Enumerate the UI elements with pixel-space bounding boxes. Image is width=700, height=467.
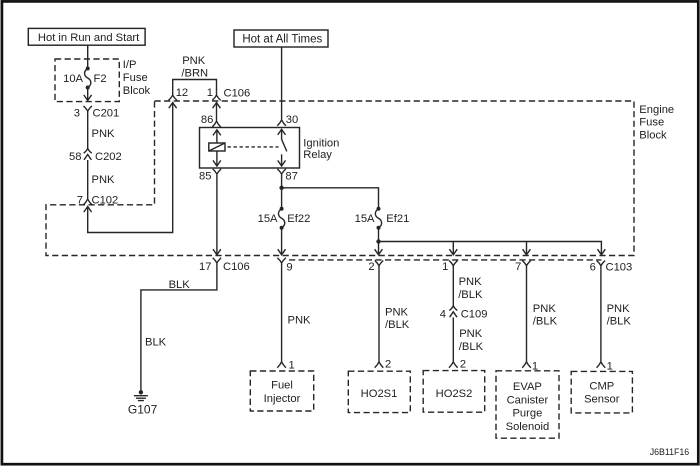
svg-text:4: 4: [440, 308, 446, 320]
svg-text:PNK: PNK: [459, 328, 483, 340]
svg-text:58: 58: [69, 151, 81, 163]
svg-text:C202: C202: [95, 151, 122, 163]
svg-text:1: 1: [607, 361, 613, 373]
svg-text:C103: C103: [606, 262, 633, 274]
svg-text:Ef21: Ef21: [386, 213, 409, 225]
svg-text:/BLK: /BLK: [607, 315, 632, 327]
svg-text:PNK: PNK: [607, 303, 631, 315]
svg-text:30: 30: [286, 114, 298, 126]
svg-text:HO2S2: HO2S2: [436, 388, 473, 400]
svg-text:87: 87: [285, 171, 297, 183]
svg-text:PNK: PNK: [92, 174, 116, 186]
svg-text:2: 2: [368, 261, 374, 273]
svg-text:Hot at All Times: Hot at All Times: [242, 34, 322, 46]
svg-text:BLK: BLK: [169, 279, 191, 291]
svg-text:Solenoid: Solenoid: [506, 421, 550, 433]
svg-text:C106: C106: [223, 261, 250, 273]
svg-text:7: 7: [515, 261, 521, 273]
svg-text:PNK: PNK: [288, 315, 312, 327]
svg-text:9: 9: [286, 262, 292, 274]
svg-text:1: 1: [532, 361, 538, 373]
svg-text:PNK: PNK: [459, 276, 483, 288]
svg-text:C106: C106: [224, 88, 251, 100]
svg-text:F2: F2: [94, 73, 107, 85]
svg-text:Fuel: Fuel: [271, 380, 293, 392]
svg-text:/BLK: /BLK: [385, 319, 410, 331]
svg-text:12: 12: [176, 87, 188, 99]
svg-text:15A: 15A: [258, 213, 278, 225]
svg-text:Hot in Run and Start: Hot in Run and Start: [38, 32, 140, 44]
svg-text:C109: C109: [461, 308, 488, 320]
svg-text:2: 2: [460, 359, 466, 371]
svg-text:/BLK: /BLK: [458, 289, 483, 301]
svg-text:C201: C201: [93, 108, 120, 120]
svg-text:1: 1: [207, 87, 213, 99]
svg-text:Block: Block: [639, 130, 667, 142]
svg-text:BLK: BLK: [145, 336, 167, 348]
svg-text:PNK: PNK: [182, 55, 206, 67]
svg-text:PNK: PNK: [533, 303, 557, 315]
svg-text:EVAP: EVAP: [513, 381, 542, 393]
svg-text:C102: C102: [92, 195, 119, 207]
svg-text:Fuse: Fuse: [123, 72, 148, 84]
svg-text:85: 85: [199, 171, 211, 183]
svg-text:3: 3: [74, 108, 80, 120]
svg-text:1: 1: [442, 261, 448, 273]
svg-text:J6B11F16: J6B11F16: [650, 447, 690, 457]
svg-text:15A: 15A: [355, 213, 375, 225]
svg-text:17: 17: [199, 261, 211, 273]
svg-text:6: 6: [590, 262, 596, 274]
svg-text:86: 86: [201, 114, 213, 126]
svg-text:Sensor: Sensor: [584, 394, 620, 406]
svg-text:/BLK: /BLK: [459, 341, 484, 353]
svg-text:1: 1: [289, 360, 295, 372]
svg-text:G107: G107: [128, 403, 158, 417]
svg-text:PNK: PNK: [92, 128, 116, 140]
svg-text:Fuse: Fuse: [639, 117, 664, 129]
svg-text:7: 7: [77, 195, 83, 207]
svg-text:HO2S1: HO2S1: [361, 388, 398, 400]
svg-text:Ignition: Ignition: [303, 138, 339, 150]
svg-text:Relay: Relay: [303, 149, 332, 161]
svg-text:Blcok: Blcok: [123, 85, 151, 97]
svg-text:/BRN: /BRN: [181, 68, 208, 80]
svg-text:Engine: Engine: [639, 104, 674, 116]
svg-text:10A: 10A: [63, 73, 83, 85]
svg-text:PNK: PNK: [385, 307, 409, 319]
svg-text:/BLK: /BLK: [533, 315, 558, 327]
svg-text:2: 2: [385, 359, 391, 371]
svg-text:Injector: Injector: [264, 393, 301, 405]
svg-text:I/P: I/P: [123, 59, 137, 71]
svg-text:Purge: Purge: [512, 408, 542, 420]
svg-text:Canister: Canister: [507, 394, 549, 406]
svg-text:Ef22: Ef22: [287, 213, 310, 225]
svg-text:CMP: CMP: [589, 381, 614, 393]
